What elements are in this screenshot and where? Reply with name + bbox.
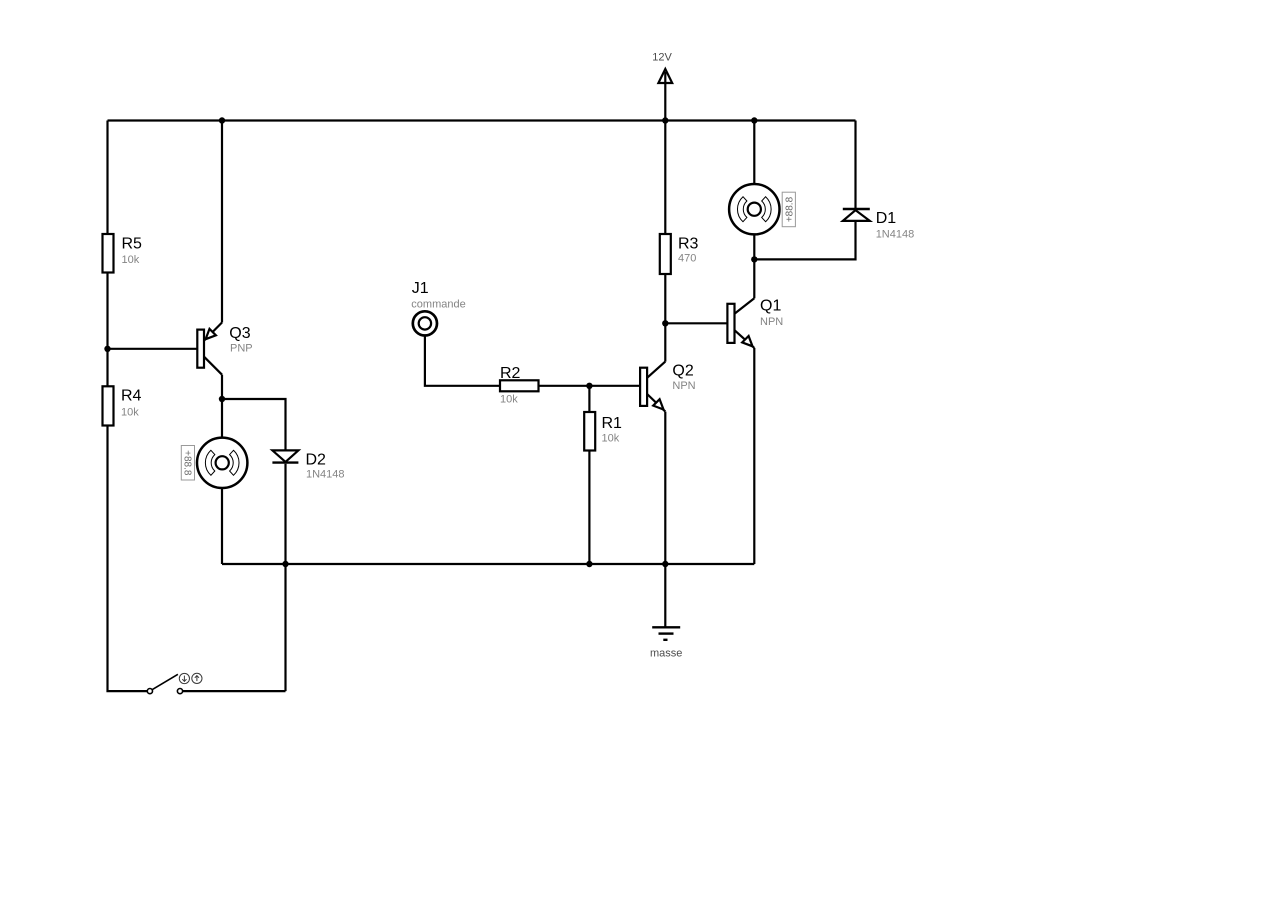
wire: Q1 collector vertical: [753, 259, 755, 298]
switch SW1 actuator up button: [192, 673, 202, 683]
svg-text:PNP: PNP: [230, 342, 253, 354]
svg-text:J1: J1: [412, 280, 429, 297]
ground symbol bar 2: [659, 632, 674, 634]
svg-text:NPN: NPN: [672, 380, 695, 392]
wire: +12V top rail: [108, 119, 856, 121]
transistor Q1 base bar: [727, 304, 734, 343]
junction: bottom rail / D2-switch branch: [282, 561, 288, 567]
transistor Q1 collector diagonal: [735, 298, 755, 314]
wire: M2 top lead: [221, 399, 223, 438]
power symbol 12V arrow: [658, 69, 672, 121]
wire: rail down to motor M1: [753, 121, 755, 185]
svg-text:R5: R5: [122, 235, 143, 252]
junction: rail / R3 branch: [662, 117, 668, 123]
svg-text:masse: masse: [650, 648, 682, 660]
transistor Q2 emitter diagonal: [647, 394, 665, 412]
transistor Q3 base bar: [197, 330, 204, 368]
svg-text:1N4148: 1N4148: [876, 229, 915, 241]
resistor R1 body: [584, 412, 595, 451]
wire: J1 to R2: [425, 336, 500, 386]
wire: M2 bottom lead: [221, 488, 223, 564]
resistor R4 body: [103, 386, 114, 425]
junction: rail / motor M1 branch: [751, 117, 757, 123]
motor M1 outer circle: [729, 184, 779, 234]
svg-text:10k: 10k: [121, 406, 139, 418]
svg-text:R1: R1: [602, 415, 623, 432]
wire: D1 cathode to rail: [854, 121, 856, 209]
svg-text:10k: 10k: [122, 254, 140, 266]
switch SW1 actuator down button: [179, 673, 189, 683]
wire: node to Q1 base: [665, 322, 727, 324]
resistor R5 body: [103, 234, 114, 273]
wire: ground stem: [664, 564, 666, 627]
motor M2 display plate: [181, 446, 194, 481]
wire: rail down to R3: [664, 121, 666, 235]
svg-text:commande: commande: [411, 299, 465, 311]
wire: node to D2 branch: [222, 399, 286, 450]
svg-text:12V: 12V: [652, 52, 672, 64]
svg-text:470: 470: [678, 253, 696, 265]
motor M2 right brush arc: [230, 450, 239, 475]
resistor R3 body: [660, 234, 671, 274]
wire: bottom rail: [222, 563, 754, 565]
svg-text:Q2: Q2: [672, 362, 693, 379]
junction: R5/R4/Q3 base node: [104, 346, 110, 352]
junction: R3 / Q2 collector / Q1 base: [662, 320, 668, 326]
transistor Q3 collector diagonal: [204, 357, 222, 375]
diode D1 cathode bar: [843, 208, 870, 210]
wire: Q2 collector vertical: [664, 323, 666, 361]
motor M1 display plate: [782, 192, 795, 227]
diode D1 triangle: [843, 210, 870, 221]
svg-text:D1: D1: [876, 210, 897, 227]
transistor Q2 emitter arrow (NPN, points out): [653, 399, 663, 409]
junction: Q3 collector / M2 / D2 node: [219, 396, 225, 402]
svg-text:10k: 10k: [602, 433, 620, 445]
transistor Q3 emitter diagonal: [204, 323, 222, 341]
junction: rail / Q3 emitter branch: [219, 117, 225, 123]
svg-text:Q3: Q3: [229, 325, 250, 342]
svg-text:R3: R3: [678, 236, 699, 253]
motor M1 inner circle: [748, 203, 761, 216]
junction: bottom rail / R1: [586, 561, 592, 567]
motor M2 inner circle: [216, 456, 229, 469]
wire: left vertical rail to R5: [106, 121, 108, 235]
junction: bottom rail / ground stem: [662, 561, 668, 567]
wire: R1 to bottom rail: [588, 451, 590, 565]
connector J1 outer ring: [413, 311, 437, 335]
transistor Q2 base bar: [640, 368, 647, 406]
switch SW1 right contact: [177, 689, 182, 694]
wire: Q3 emitter to rail: [221, 121, 223, 323]
svg-text:R4: R4: [121, 388, 142, 405]
junction: R2 / R1 / Q2 base: [586, 383, 592, 389]
diode D2 triangle: [272, 450, 298, 462]
wire: R2 to Q2 base: [539, 385, 641, 387]
wire: base node to Q3 base: [108, 348, 198, 350]
motor M2 outer circle: [197, 438, 247, 488]
wire: junction down to R1: [588, 386, 590, 412]
motor M1 left brush arc: [737, 197, 746, 222]
ground symbol bar 1: [652, 626, 680, 628]
motor M1 right brush arc: [762, 197, 771, 222]
resistor R2 body: [500, 380, 539, 391]
svg-text:1N4148: 1N4148: [306, 469, 345, 481]
svg-text:10k: 10k: [500, 394, 518, 406]
motor M2 left brush arc: [205, 450, 214, 475]
wire: M1 bottom lead: [753, 234, 755, 259]
wire: switch right lead: [183, 690, 286, 692]
wire: node to D1 anode: [754, 222, 855, 259]
wire: R3 to Q2 collector node: [664, 274, 666, 323]
switch SW1 lever: [152, 674, 178, 689]
wire: R4 down to switch: [108, 426, 148, 692]
diode D2 cathode bar: [272, 461, 298, 463]
ground symbol bar 3: [663, 639, 667, 641]
junction: M1 / D1 / Q1 collector: [751, 256, 757, 262]
svg-text:R2: R2: [500, 365, 521, 382]
svg-text:NPN: NPN: [760, 316, 783, 328]
wire: Q2 emitter to bottom rail: [664, 412, 666, 564]
svg-text:+88.8: +88.8: [784, 196, 795, 222]
transistor Q1 emitter diagonal: [735, 330, 755, 348]
transistor Q1 emitter arrow (NPN, points out): [742, 336, 752, 346]
wire: Q3 collector to motor node: [221, 375, 223, 399]
svg-text:+88.8: +88.8: [181, 450, 192, 476]
wire: switch branch vertical: [284, 564, 286, 691]
switch SW1 left contact: [147, 689, 152, 694]
svg-text:Q1: Q1: [760, 298, 781, 315]
transistor Q3 emitter arrow (PNP, points to bar): [206, 329, 216, 339]
wire: Q1 emitter to bottom rail: [753, 348, 755, 564]
svg-text:D2: D2: [306, 452, 327, 469]
wire: R5 to base node: [106, 273, 108, 387]
transistor Q2 collector diagonal: [647, 362, 665, 378]
connector J1 inner ring: [419, 317, 431, 329]
wire: D2 cathode down to bottom rail: [284, 464, 286, 564]
